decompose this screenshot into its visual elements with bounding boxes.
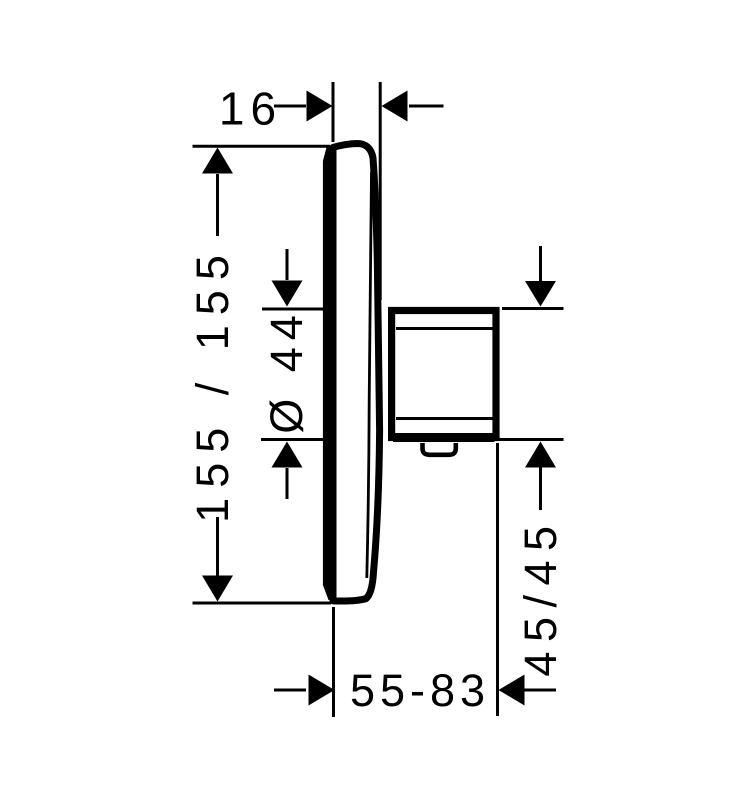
- dim 55-83 : left arrow tail: [274, 689, 306, 692]
- dim 45/45 : upper tail: [539, 246, 542, 281]
- dim 155/155 : lower dim line: [216, 517, 219, 576]
- dim Ø44 : upper tail: [286, 249, 289, 280]
- dim 16 : right arrowhead: [382, 91, 408, 122]
- dim 45/45 : lower tail: [539, 467, 542, 510]
- dim Ø44 : bottom tick: [261, 438, 323, 441]
- plate inner face seam line: [367, 172, 372, 578]
- escutcheon plate outline (side view): [333, 144, 380, 602]
- dim 45/45 : lower arrowhead (up): [525, 442, 556, 468]
- svg-text:Ø 44: Ø 44: [261, 308, 312, 434]
- knob inner line lower: [396, 417, 493, 420]
- dim 45/45 : top tick: [502, 307, 564, 310]
- dim 55-83 : right arrow tail: [523, 689, 556, 692]
- dim 16 : left arrow tail: [274, 105, 306, 108]
- dim 45/45 : upper arrowhead (down): [525, 281, 556, 307]
- plate mounting flange (edge-on black bar): [323, 148, 337, 601]
- dim 155/155 : upper dim line: [216, 174, 219, 236]
- knob bottom edge reinforcement: [393, 433, 495, 442]
- svg-text:155 / 155: 155 / 155: [187, 245, 238, 523]
- dim Ø44 : top tick: [262, 308, 331, 311]
- dim 155/155 : top arrowhead: [202, 148, 233, 174]
- svg-text:16: 16: [219, 83, 282, 135]
- dim 55-83 : left arrowhead: [309, 675, 335, 706]
- dim 16 : extension line right: [379, 82, 382, 300]
- dim 16 : left arrowhead: [307, 91, 333, 122]
- dim 155/155 : bottom arrowhead: [202, 576, 233, 602]
- dim 45/45 : middle tick: [497, 438, 564, 441]
- dim Ø44 : lower arrowhead (up): [272, 442, 303, 468]
- knob bottom notch tab: [423, 443, 456, 455]
- dim 155/155 : bottom tick: [193, 602, 332, 605]
- dim 16 : right arrow tail: [409, 105, 444, 108]
- knob inner line upper: [396, 327, 493, 330]
- dim 55-83 : right arrowhead: [499, 675, 525, 706]
- dim 16 : extension line left: [332, 82, 335, 142]
- dim Ø44 : lower tail: [286, 468, 289, 499]
- dim 55-83 : extension line left: [332, 607, 335, 717]
- dim 55-83 : extension line right: [496, 443, 499, 716]
- svg-text:45/45: 45/45: [515, 516, 566, 676]
- handle knob body: [392, 311, 496, 438]
- svg-text:55-83: 55-83: [350, 665, 490, 716]
- dim 155/155 : top tick: [193, 145, 331, 148]
- dim Ø44 : upper arrowhead (down): [272, 281, 303, 307]
